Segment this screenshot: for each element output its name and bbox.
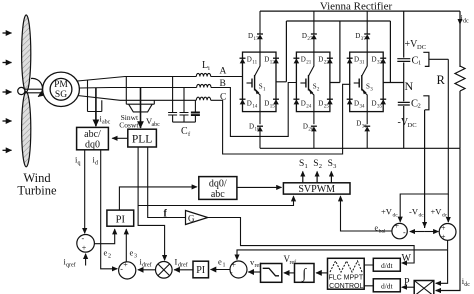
svg-text:dc: dc <box>419 213 425 219</box>
svg-text:C: C <box>181 126 188 137</box>
svg-text:D: D <box>301 100 306 108</box>
svg-text:abc: abc <box>211 189 225 200</box>
svg-text:dq0/: dq0/ <box>209 178 227 189</box>
svg-text:dref: dref <box>142 262 152 269</box>
svg-text:14: 14 <box>252 105 257 110</box>
svg-text:dc: dc <box>442 213 448 219</box>
svg-text:DC: DC <box>408 122 417 129</box>
svg-text:e: e <box>218 257 222 267</box>
svg-text:W: W <box>402 253 412 264</box>
svg-text:S: S <box>299 159 304 169</box>
svg-text:abc: abc <box>102 120 111 126</box>
svg-text:d/dt: d/dt <box>381 281 394 290</box>
svg-text:-: - <box>120 265 123 274</box>
svg-text:bal: bal <box>379 229 386 235</box>
svg-text:q: q <box>78 161 81 167</box>
svg-text:SG: SG <box>55 90 67 100</box>
svg-text:C: C <box>220 92 226 102</box>
svg-text:e: e <box>104 248 108 258</box>
svg-text:1: 1 <box>223 263 226 269</box>
svg-text:D: D <box>354 56 359 64</box>
svg-text:B: B <box>220 79 226 89</box>
svg-text:34: 34 <box>360 105 366 110</box>
svg-text:abc/: abc/ <box>84 129 101 140</box>
svg-text:FLC MPPT: FLC MPPT <box>328 275 363 282</box>
svg-text:3: 3 <box>333 163 336 170</box>
svg-text:17: 17 <box>254 37 260 42</box>
svg-text:21: 21 <box>306 61 312 66</box>
svg-text:D: D <box>301 56 306 64</box>
svg-text:D: D <box>355 32 360 40</box>
svg-text:PI: PI <box>196 265 205 276</box>
svg-text:Turbine: Turbine <box>17 184 57 198</box>
svg-text:25: 25 <box>324 105 330 110</box>
svg-text:dq0: dq0 <box>85 140 100 151</box>
svg-text:dc: dc <box>464 282 470 288</box>
svg-text:35: 35 <box>377 105 383 110</box>
svg-text:2: 2 <box>418 103 421 110</box>
svg-text:27: 27 <box>307 37 313 42</box>
svg-text:D: D <box>372 100 377 108</box>
svg-text:-V: -V <box>409 207 419 217</box>
svg-text:D: D <box>302 32 307 40</box>
svg-text:37: 37 <box>361 37 367 42</box>
svg-text:dc: dc <box>393 213 399 219</box>
svg-text:12: 12 <box>270 61 276 66</box>
svg-text:qref: qref <box>66 262 76 269</box>
svg-text:S: S <box>313 159 318 169</box>
svg-text:D: D <box>318 56 323 64</box>
svg-text:D: D <box>264 56 269 64</box>
svg-text:D: D <box>249 123 254 131</box>
svg-text:-: - <box>403 228 406 237</box>
svg-text:36: 36 <box>362 125 368 130</box>
svg-text:Coswt: Coswt <box>119 121 139 130</box>
svg-text:i: i <box>208 65 210 72</box>
svg-text:1: 1 <box>418 60 421 67</box>
svg-text:d: d <box>95 161 98 167</box>
svg-text:dc: dc <box>463 19 469 25</box>
svg-text:G: G <box>188 214 195 224</box>
svg-text:abc: abc <box>152 122 161 128</box>
svg-text:D: D <box>303 123 308 131</box>
svg-text:+: + <box>441 224 446 233</box>
svg-text:+V: +V <box>431 207 443 217</box>
svg-text:22: 22 <box>324 61 330 66</box>
svg-text:D: D <box>264 100 269 108</box>
svg-text:D: D <box>318 100 323 108</box>
svg-text:D: D <box>354 100 359 108</box>
svg-text:2: 2 <box>319 163 322 170</box>
svg-text:D: D <box>248 32 253 40</box>
svg-text:D: D <box>356 120 361 128</box>
svg-text:2: 2 <box>108 254 111 260</box>
svg-text:R: R <box>437 73 446 87</box>
svg-text:32: 32 <box>377 61 383 66</box>
svg-text:PM: PM <box>54 80 68 90</box>
svg-text:dref: dref <box>178 262 188 269</box>
svg-text:PLL: PLL <box>132 134 152 146</box>
svg-text:P: P <box>404 277 410 288</box>
svg-text:26: 26 <box>308 128 314 133</box>
svg-text:DC: DC <box>417 44 426 51</box>
svg-text:24: 24 <box>306 105 312 110</box>
svg-text:SVPWM: SVPWM <box>298 184 335 195</box>
svg-text:D: D <box>247 56 252 64</box>
svg-text:+: + <box>82 244 87 253</box>
svg-text:11: 11 <box>252 61 257 66</box>
svg-text:31: 31 <box>360 61 366 66</box>
svg-text:D: D <box>372 56 377 64</box>
svg-text:PI: PI <box>116 215 126 226</box>
svg-text:3: 3 <box>134 254 137 260</box>
svg-text:e: e <box>130 248 134 258</box>
svg-text:15: 15 <box>270 105 276 110</box>
svg-text:16: 16 <box>255 128 261 133</box>
svg-text:+: + <box>395 222 400 231</box>
svg-text:S: S <box>328 159 333 169</box>
svg-text:-: - <box>82 234 85 243</box>
svg-text:A: A <box>220 67 227 77</box>
svg-text:-: - <box>230 268 233 277</box>
svg-text:d/dt: d/dt <box>381 261 394 270</box>
svg-text:N: N <box>405 79 414 93</box>
svg-text:CONTROL: CONTROL <box>329 283 363 290</box>
svg-text:+: + <box>441 233 446 242</box>
svg-text:+: + <box>123 260 128 269</box>
svg-text:D: D <box>247 100 252 108</box>
svg-text:+V: +V <box>381 207 393 217</box>
svg-text:1: 1 <box>305 163 308 170</box>
